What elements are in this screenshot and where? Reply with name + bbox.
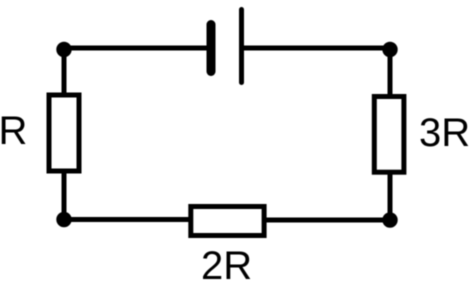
label R	[0, 109, 27, 153]
wire top-left (node A to battery negative plate)	[64, 46, 208, 51]
label 3R	[419, 111, 470, 155]
svg-text:3R: 3R	[419, 111, 470, 155]
wire top-right (battery positive plate to node B)	[242, 46, 391, 51]
resistor R body	[49, 95, 79, 171]
wire right lower (resistor 3R down to node C)	[388, 172, 393, 220]
wire bottom-left (node D to resistor 2R)	[64, 217, 191, 222]
node C (bottom-right junction dot)	[382, 212, 397, 227]
wire bottom-right (resistor 2R to node C)	[264, 218, 390, 223]
wire left lower (resistor R down to node D)	[62, 171, 67, 220]
battery B1 negative plate (short thick bar)	[207, 25, 216, 72]
node D (bottom-left junction dot)	[56, 212, 71, 227]
svg-text:2R: 2R	[201, 244, 252, 288]
wire left upper (node A down to resistor R)	[62, 48, 67, 95]
label 2R	[201, 244, 252, 288]
battery B1 positive plate (long thin bar)	[239, 10, 244, 83]
node B (top-right junction dot)	[382, 42, 397, 57]
resistor 2R body	[191, 207, 264, 236]
node A (top-left junction dot)	[56, 42, 71, 57]
resistor 3R body	[374, 97, 404, 173]
svg-text:R: R	[0, 109, 27, 153]
wire right upper (node B down to resistor 3R)	[388, 48, 393, 96]
